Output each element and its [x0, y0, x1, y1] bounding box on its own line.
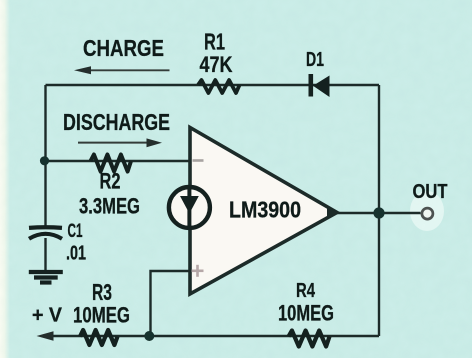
- op-amp U1 LM3900 triangle: [190, 128, 337, 295]
- svg-text:OUT: OUT: [413, 181, 448, 203]
- svg-text:+ V: + V: [32, 305, 63, 327]
- node B: junction of bottom rail and non-inverting branch: [144, 331, 154, 341]
- svg-text:10MEG: 10MEG: [73, 303, 130, 328]
- svg-text:D1: D1: [306, 49, 324, 71]
- svg-text:LM3900: LM3900: [229, 197, 301, 223]
- svg-text:10MEG: 10MEG: [278, 301, 334, 326]
- svg-text:CHARGE: CHARGE: [83, 35, 164, 61]
- svg-text:R4: R4: [296, 279, 315, 302]
- svg-text:47K: 47K: [200, 52, 233, 77]
- capacitor C1: [29, 227, 62, 271]
- node C: output junction: [373, 207, 384, 218]
- ground: [29, 272, 63, 283]
- current-source symbol inside op-amp: [169, 187, 210, 228]
- wire: bottom rail: [52, 335, 379, 337]
- node A: junction of left rail, R2 and C1: [40, 156, 49, 165]
- charge direction arrow (points left): [74, 66, 170, 74]
- svg-text:.01: .01: [66, 243, 86, 265]
- OUT terminal: [422, 208, 433, 219]
- svg-text:DISCHARGE: DISCHARGE: [63, 109, 170, 135]
- wire: top rail from left corner to right corner: [46, 84, 380, 86]
- resistor R3: [80, 330, 118, 345]
- svg-text:3.3MEG: 3.3MEG: [79, 194, 140, 219]
- discharge direction arrow (points right): [78, 138, 162, 147]
- pin label: non-inverting input plus: [192, 265, 204, 277]
- svg-text:R1: R1: [204, 29, 225, 55]
- svg-text:R2: R2: [100, 169, 121, 194]
- resistor R4: [289, 331, 330, 347]
- diode D1: [309, 74, 330, 97]
- wire: inverting input through R2: [45, 160, 191, 162]
- wire: left vertical from top rail down to capacitor C1: [44, 85, 46, 226]
- wire: non-inverting input branch: [151, 271, 191, 336]
- op-amp apex tip: [327, 207, 338, 219]
- resistor R2: [91, 155, 132, 172]
- wire: output from op-amp apex to OUT terminal: [337, 212, 421, 214]
- pin label: inverting input minus: [193, 159, 204, 162]
- resistor R1: [198, 80, 240, 93]
- svg-text:R3: R3: [92, 279, 112, 305]
- wire: right vertical from D1 corner down to bottom rail: [378, 85, 380, 336]
- +V supply arrow (points left): [37, 331, 54, 341]
- svg-text:C1: C1: [68, 220, 83, 242]
